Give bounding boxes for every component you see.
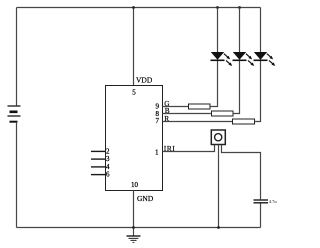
IC U1 body [106,86,163,191]
pin stub 6 [91,174,106,176]
wire: resistor R2 to LED D2 column [233,60,240,113]
wire: LED D3 anode from rail [260,8,262,53]
LED D3 [254,52,277,67]
capacitor C1 [254,200,269,203]
pin stub 2 [91,150,106,152]
pin number 4 [106,163,110,171]
wire: LED D2 anode from rail [239,8,241,53]
pin label GND [137,194,154,203]
LED D1 [211,52,234,67]
wire: resistor R3 to LED D3 column [255,60,261,121]
wire: pin 1 IRI to IR receiver out pin [163,145,215,152]
wire: bottom ground rail [17,227,261,229]
pin label VDD [136,76,153,85]
wire: pin 8 to resistor R2 [163,113,212,115]
svg-text:VDD: VDD [136,76,153,85]
wire: resistor R1 to LED D1 column [210,60,218,106]
svg-text:6: 6 [106,171,110,179]
pin number 3 [106,155,110,163]
pin number 9 [156,103,160,111]
wire: GND pin 10 vertical [133,191,135,236]
pin stub 4 [91,166,106,168]
battery [8,106,21,122]
pin number 1 [155,149,159,157]
junction dot: LED D2 rail [238,6,241,9]
svg-text:GND: GND [137,194,154,203]
resistor R2 [212,111,234,116]
pin number 5 [132,89,136,97]
value label 4.7u [269,199,278,204]
svg-text:7: 7 [156,117,160,125]
pin number 7 [156,117,160,125]
svg-text:1: 1 [155,149,159,157]
svg-text:3: 3 [106,155,110,163]
wire: VDD pin 5 vertical [133,8,135,87]
resistor R3 [233,119,255,124]
IR receiver U2 [211,130,225,145]
wire: IR receiver gnd pin to bottom rail [218,145,220,228]
pin number 8 [156,110,160,118]
pin number 2 [106,147,110,155]
svg-text:4.7u: 4.7u [269,199,278,204]
pin label G / node G [164,99,170,108]
resistor R1 [189,104,211,109]
wire: capacitor C1 to bottom rail [260,203,262,227]
junction dot: VDD rail [132,6,135,9]
pin number 10 [131,181,139,189]
junction dot: GND rail [132,226,135,229]
pin label R / node R [164,114,169,123]
svg-text:10: 10 [131,181,139,189]
pin label IRI / node IRI [164,144,175,153]
wire: battery positive vertical [16,8,18,107]
pin number 6 [106,171,110,179]
junction dot: LED D1 rail [216,6,219,9]
ground [127,236,141,243]
wire: pin 7 to resistor R3 [163,121,233,123]
pin stub 3 [91,158,106,160]
wire: pin 9 to resistor R1 [163,106,189,108]
pin label B / node B [165,106,170,115]
wire: LED D1 anode from rail [217,8,219,53]
wire: battery negative vertical [16,122,18,228]
junction dot: IR gnd at rail [217,226,220,229]
wire: top VDD rail [17,7,261,9]
wire: IR receiver vcc pin to capacitor C1 [222,145,261,200]
LED D2 [233,52,256,67]
svg-text:5: 5 [132,89,136,97]
